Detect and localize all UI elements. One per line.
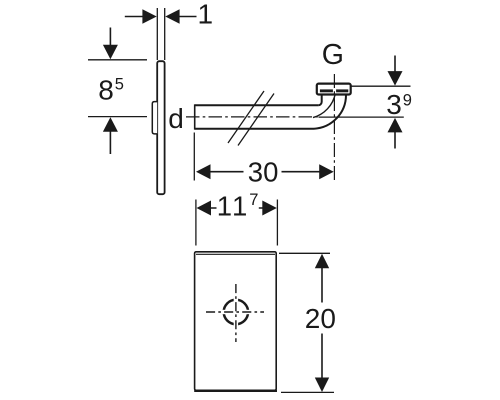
- svg-text:30: 30: [248, 156, 279, 187]
- side view: pipe boss on back of plate: [152, 102, 157, 134]
- front view: ring gaps at centerline crossings: [222, 298, 251, 326]
- svg-text:8: 8: [98, 74, 114, 105]
- dimension 30: left extension line: [193, 133, 195, 181]
- G fitting: flange outline: [317, 84, 351, 95]
- front view: center hole: [224, 300, 248, 324]
- dimension 8.5: lower arrow: [103, 117, 118, 132]
- svg-text:5: 5: [115, 75, 124, 93]
- svg-text:9: 9: [403, 91, 412, 109]
- G fitting: vertical centerline (dash-dot): [333, 74, 335, 181]
- dimension 20: lower arrowhead: [315, 378, 329, 393]
- front view: plate bottom edge (thick): [194, 390, 277, 392]
- dimension 1: extension lines: [157, 8, 164, 60]
- pipe bend: inner (left) arc up to flange: [318, 94, 322, 106]
- pipe bend: end-wall arc: [313, 94, 335, 118]
- front view: crosshair vertical centerline: [235, 284, 237, 342]
- dimension 8.5: upper arrow: [109, 28, 111, 46]
- dimension 3.9: upper extension line: [352, 85, 411, 87]
- pipe: top line: [195, 104, 319, 106]
- dimension 11.7: right extension line: [276, 200, 278, 246]
- pipe: left end cap: [194, 104, 196, 129]
- dimension 11.7: dimension line segments: [210, 207, 263, 209]
- dimension 8.5: upper extension line: [88, 59, 147, 61]
- dimension 20: dimension line segments: [321, 268, 323, 379]
- dimension 20: upper extension line: [279, 252, 330, 254]
- dimension 3.9: lower arrow: [388, 118, 403, 132]
- front view: crosshair horizontal centerline: [206, 311, 264, 313]
- dimension 8.5: lower extension line: [88, 116, 147, 118]
- dimension 1: right dimension line: [179, 16, 197, 18]
- svg-text:11: 11: [217, 190, 250, 221]
- front view: cover plate outline: [195, 252, 277, 390]
- svg-text:1: 1: [198, 0, 214, 29]
- pipe centerline (dash-dot): [186, 116, 319, 118]
- dimension 3.9: lower extension line: [336, 116, 404, 118]
- dimension 11.7: left extension line: [195, 200, 197, 246]
- front view: plate top inner edge line: [196, 253, 275, 255]
- svg-text:3: 3: [386, 89, 402, 120]
- dimension 1: right arrowhead: [165, 9, 179, 23]
- dimension 30: left arrowhead: [196, 164, 211, 179]
- side view: mounting plate: [157, 61, 164, 194]
- svg-text:G: G: [322, 39, 344, 71]
- dimension 30: dimension line segments: [210, 171, 321, 173]
- dimension 1: left dimension line: [125, 16, 144, 18]
- svg-text:7: 7: [249, 191, 258, 209]
- dimension 30: right arrowhead: [319, 164, 334, 179]
- dimension 20: lower extension line: [281, 391, 334, 393]
- svg-text:20: 20: [305, 303, 336, 334]
- pipe: bottom line: [195, 128, 314, 130]
- dimension 20: upper arrowhead: [315, 254, 329, 268]
- svg-text:d: d: [168, 103, 184, 134]
- dimension 3.9: upper arrow: [394, 56, 396, 73]
- dimension 1: left arrowhead: [142, 9, 156, 23]
- G fitting: seal bar left: [320, 89, 333, 92]
- dimension 11.7: left arrowhead: [197, 201, 212, 216]
- G fitting: seal bar right: [336, 89, 348, 92]
- dimension 11.7: right arrowhead: [262, 201, 277, 216]
- pipe bend: outer (right) arc up to flange: [314, 94, 346, 129]
- pipe break mark (double slash): [228, 91, 274, 146]
